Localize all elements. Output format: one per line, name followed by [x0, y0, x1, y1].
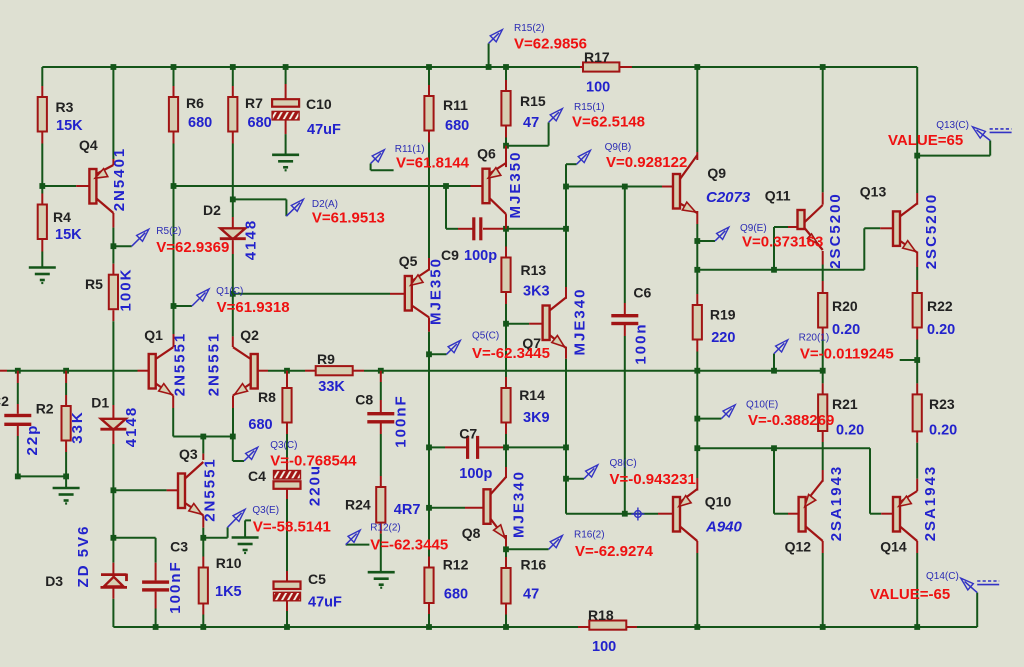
- svg-text:100p: 100p: [459, 466, 492, 482]
- svg-text:Q1: Q1: [144, 327, 163, 343]
- svg-text:R20: R20: [832, 298, 858, 314]
- svg-text:4148: 4148: [243, 219, 260, 260]
- svg-text:2N5551: 2N5551: [206, 332, 223, 397]
- svg-text:2SA1943: 2SA1943: [922, 465, 939, 542]
- svg-text:Q9: Q9: [707, 165, 726, 181]
- svg-text:V=-0.943231: V=-0.943231: [610, 471, 696, 488]
- svg-text:C2073: C2073: [706, 189, 751, 206]
- svg-text:2SC5200: 2SC5200: [827, 192, 844, 269]
- svg-text:100p: 100p: [464, 248, 497, 264]
- svg-text:3K9: 3K9: [523, 410, 550, 426]
- svg-text:220: 220: [711, 330, 735, 346]
- svg-text:R22: R22: [927, 298, 953, 314]
- svg-text:A940: A940: [705, 519, 743, 536]
- svg-text:R8: R8: [258, 389, 276, 405]
- svg-text:R5: R5: [85, 276, 103, 292]
- svg-text:680: 680: [248, 417, 272, 433]
- svg-text:MJE340: MJE340: [511, 470, 528, 538]
- svg-text:C10: C10: [306, 96, 332, 112]
- svg-text:R13: R13: [521, 262, 547, 278]
- svg-text:4148: 4148: [123, 406, 140, 447]
- svg-text:R12: R12: [443, 557, 469, 573]
- svg-text:100: 100: [592, 639, 616, 655]
- svg-text:0.20: 0.20: [927, 322, 955, 338]
- svg-text:0.20: 0.20: [836, 423, 864, 439]
- svg-text:Q13: Q13: [860, 184, 887, 200]
- svg-text:2N5401: 2N5401: [111, 147, 128, 212]
- svg-text:680: 680: [188, 115, 212, 131]
- svg-text:D2(A): D2(A): [312, 199, 338, 210]
- svg-text:R2: R2: [36, 401, 54, 417]
- svg-text:2SA1943: 2SA1943: [828, 465, 845, 542]
- svg-text:Q11: Q11: [765, 188, 791, 204]
- svg-text:33K: 33K: [318, 379, 345, 395]
- svg-text:D2: D2: [203, 202, 221, 218]
- svg-text:100K: 100K: [118, 268, 135, 312]
- svg-text:Q1(C): Q1(C): [216, 286, 243, 297]
- svg-text:R9: R9: [317, 351, 335, 367]
- svg-text:Q2: Q2: [240, 327, 259, 343]
- svg-text:0.20: 0.20: [832, 322, 860, 338]
- svg-text:C4: C4: [248, 468, 266, 484]
- svg-text:V=0.928122: V=0.928122: [606, 154, 687, 171]
- svg-text:R3: R3: [56, 99, 74, 115]
- svg-text:R14: R14: [519, 387, 545, 403]
- svg-text:V=-62.3445: V=-62.3445: [370, 537, 448, 554]
- svg-text:V=-0.768544: V=-0.768544: [270, 453, 357, 470]
- svg-text:C8: C8: [355, 392, 373, 408]
- svg-text:VALUE=65: VALUE=65: [888, 132, 963, 149]
- svg-text:V=61.9318: V=61.9318: [217, 299, 290, 316]
- svg-text:D1: D1: [91, 395, 109, 411]
- svg-text:D3: D3: [45, 573, 63, 589]
- svg-text:R19: R19: [710, 307, 736, 323]
- svg-text:100n: 100n: [633, 322, 650, 364]
- svg-text:Q3(E): Q3(E): [252, 505, 279, 516]
- svg-text:R7: R7: [245, 95, 263, 111]
- svg-text:Q13(C): Q13(C): [936, 120, 969, 131]
- svg-text:V=62.5148: V=62.5148: [572, 114, 645, 131]
- svg-text:Q8: Q8: [462, 525, 481, 541]
- svg-text:220u: 220u: [307, 464, 324, 506]
- svg-text:Q3(C): Q3(C): [270, 440, 297, 451]
- svg-text:100: 100: [586, 80, 610, 96]
- svg-text:C5: C5: [308, 571, 326, 587]
- svg-text:V=61.9513: V=61.9513: [312, 210, 385, 227]
- svg-text:C6: C6: [633, 285, 651, 301]
- svg-text:Q10: Q10: [705, 494, 732, 510]
- svg-text:R12(2): R12(2): [370, 523, 401, 534]
- svg-text:V=-0.0119245: V=-0.0119245: [800, 346, 894, 363]
- svg-text:R21: R21: [832, 396, 858, 412]
- svg-text:R20(1): R20(1): [799, 333, 830, 344]
- svg-text:R16(2): R16(2): [574, 530, 605, 541]
- svg-text:2SC5200: 2SC5200: [923, 193, 940, 270]
- svg-text:100nF: 100nF: [393, 394, 410, 447]
- svg-text:2N5551: 2N5551: [172, 332, 189, 397]
- svg-text:Q9(B): Q9(B): [605, 142, 632, 153]
- svg-text:R6: R6: [186, 95, 204, 111]
- svg-text:15K: 15K: [56, 118, 83, 134]
- svg-text:47uF: 47uF: [307, 122, 341, 138]
- svg-text:Q12: Q12: [785, 539, 812, 555]
- svg-text:C7: C7: [459, 426, 477, 442]
- svg-text:V=62.9369: V=62.9369: [156, 239, 229, 256]
- svg-text:MJE350: MJE350: [507, 151, 524, 219]
- svg-text:R23: R23: [929, 396, 955, 412]
- svg-text:Q9(E): Q9(E): [740, 223, 767, 234]
- svg-text:R17: R17: [584, 49, 610, 65]
- svg-text:V=-58.5141: V=-58.5141: [253, 519, 331, 536]
- svg-text:0.20: 0.20: [929, 423, 957, 439]
- svg-text:Q6: Q6: [477, 146, 496, 162]
- svg-text:R24: R24: [345, 497, 371, 513]
- svg-text:V=62.9856: V=62.9856: [514, 36, 587, 53]
- svg-text:Q14(C): Q14(C): [926, 571, 959, 582]
- svg-text:R5(2): R5(2): [156, 226, 181, 237]
- svg-text:ZD 5V6: ZD 5V6: [75, 525, 92, 588]
- svg-text:680: 680: [248, 115, 272, 131]
- svg-text:680: 680: [445, 118, 469, 134]
- svg-text:V=61.8144: V=61.8144: [396, 155, 470, 172]
- svg-text:R4: R4: [53, 209, 71, 225]
- svg-text:100nF: 100nF: [167, 560, 184, 613]
- svg-text:33K: 33K: [69, 410, 86, 444]
- svg-text:MJE340: MJE340: [572, 288, 589, 356]
- svg-text:R10: R10: [216, 555, 242, 571]
- svg-text:Q8(C): Q8(C): [610, 458, 637, 469]
- svg-text:C9: C9: [441, 247, 459, 263]
- svg-text:V=0.373163: V=0.373163: [742, 234, 823, 251]
- svg-text:Q10(E): Q10(E): [746, 400, 778, 411]
- svg-text:R15: R15: [520, 93, 546, 109]
- svg-text:Q14: Q14: [880, 539, 907, 555]
- svg-text:47: 47: [523, 587, 539, 603]
- svg-text:22p: 22p: [24, 424, 41, 456]
- svg-text:R15(2): R15(2): [514, 23, 545, 34]
- svg-text:47uF: 47uF: [308, 595, 342, 611]
- svg-text:680: 680: [444, 587, 468, 603]
- svg-text:Q4: Q4: [79, 137, 98, 153]
- svg-text:3K3: 3K3: [523, 284, 550, 300]
- svg-text:V=-0.388269: V=-0.388269: [748, 412, 834, 429]
- svg-text:15K: 15K: [55, 227, 82, 243]
- svg-text:Q3: Q3: [179, 446, 198, 462]
- svg-text:VALUE=-65: VALUE=-65: [870, 586, 950, 603]
- svg-text:R11: R11: [443, 97, 468, 113]
- svg-text:Q5(C): Q5(C): [472, 331, 499, 342]
- svg-text:R18: R18: [588, 607, 614, 623]
- svg-text:R16: R16: [521, 557, 547, 573]
- svg-text:C3: C3: [170, 539, 188, 555]
- svg-text:2N5551: 2N5551: [202, 457, 219, 522]
- svg-text:1K5: 1K5: [215, 584, 242, 600]
- svg-text:C2: C2: [0, 393, 9, 409]
- svg-text:MJE350: MJE350: [428, 257, 445, 325]
- svg-text:Q5: Q5: [399, 253, 418, 269]
- svg-text:V=-62.3445: V=-62.3445: [472, 345, 550, 362]
- svg-text:4R7: 4R7: [394, 502, 421, 518]
- svg-text:R11(1): R11(1): [395, 144, 425, 155]
- svg-text:V=-62.9274: V=-62.9274: [575, 543, 654, 560]
- svg-text:R15(1): R15(1): [574, 102, 605, 113]
- svg-text:47: 47: [523, 115, 539, 131]
